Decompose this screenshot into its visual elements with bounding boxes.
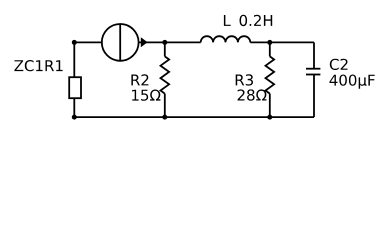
wire: R2 branch lower lead bbox=[164, 94, 166, 118]
capacitor C2 plates bbox=[306, 69, 320, 75]
value label 400uF bbox=[330, 75, 375, 89]
wire: right branch down to C2 top plate bbox=[313, 42, 315, 68]
wire: C2 bottom plate to bottom-right corner bbox=[313, 75, 315, 118]
wire: inductor to R3 top bbox=[250, 41, 269, 43]
label R3 bbox=[236, 74, 253, 85]
wire: R3 branch upper lead bbox=[269, 42, 271, 56]
wire: R2 branch upper lead bbox=[164, 42, 166, 56]
value label 28 ohm bbox=[238, 89, 267, 100]
impedance box ZC1R1 bbox=[69, 77, 81, 98]
wire: bottom net bbox=[74, 116, 314, 118]
wire: left branch down to ZC1R1 bbox=[73, 42, 75, 77]
wire: R3 top to top-right corner bbox=[270, 41, 314, 43]
junction: R2 bottom bbox=[162, 115, 167, 120]
label ZC1R1 bbox=[14, 60, 62, 71]
resistor R2 zigzag bbox=[161, 56, 170, 93]
wire: R2 top to inductor bbox=[165, 41, 201, 43]
wire: top net from node A to source bbox=[74, 41, 102, 43]
junction: R2 top bbox=[162, 40, 167, 45]
junction: R3 top bbox=[267, 40, 272, 45]
wire: ZC1R1 to bottom-left node bbox=[73, 98, 75, 117]
wire: R3 branch lower lead bbox=[269, 94, 271, 118]
resistor R3 zigzag bbox=[266, 56, 275, 93]
label R2 bbox=[131, 74, 148, 85]
label L 0.2H bbox=[224, 15, 272, 26]
junction: R3 bottom bbox=[267, 115, 272, 120]
current source arrow bbox=[141, 37, 148, 47]
wire: source output to R2 top bbox=[139, 41, 165, 43]
value label 15 ohm bbox=[132, 90, 160, 101]
junction node A (top left) bbox=[72, 40, 77, 45]
current source symbol circle bbox=[102, 24, 139, 61]
label C2 bbox=[330, 59, 348, 70]
inductor L bbox=[201, 36, 251, 42]
junction: bottom left bbox=[72, 115, 77, 120]
